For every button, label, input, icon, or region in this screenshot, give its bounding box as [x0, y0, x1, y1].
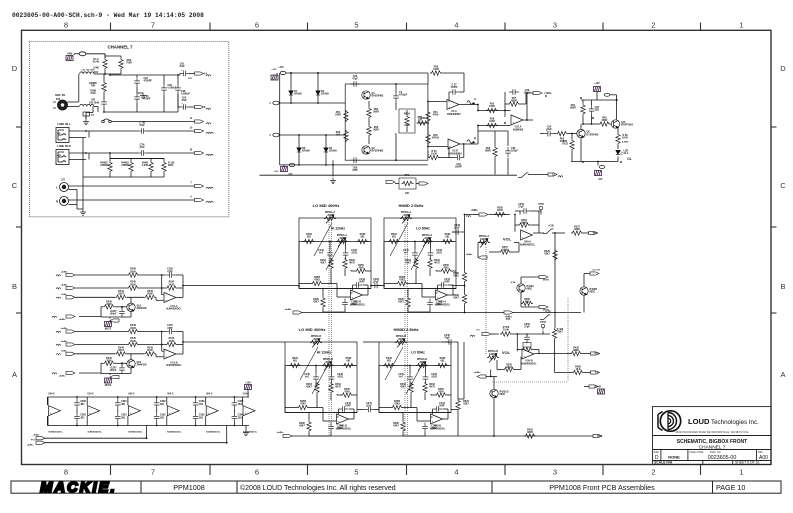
op-amp U5.A — [447, 100, 459, 110]
connector MUTE flag 2 — [539, 305, 548, 308]
connector gain cw — [386, 180, 395, 183]
wire — [205, 397, 207, 405]
capacitor C245 — [412, 249, 418, 259]
svg-text:.0022: .0022 — [337, 376, 344, 379]
wire — [520, 277, 522, 284]
svg-text:180 R: 180 R — [118, 349, 125, 352]
resistor R528 — [521, 347, 533, 351]
svg-text:JB1: JB1 — [160, 416, 165, 419]
wire — [443, 418, 449, 420]
svg-text:47uF: 47uF — [444, 337, 450, 340]
junction — [582, 123, 584, 125]
svg-text:MIC IN: MIC IN — [55, 93, 65, 97]
svg-text:4745: 4745 — [443, 267, 449, 270]
junction — [161, 274, 163, 276]
junction — [526, 119, 528, 121]
wire eq row — [379, 365, 451, 367]
resistor R545 — [127, 342, 139, 346]
wire XLR feed — [86, 53, 105, 55]
svg-text:+15V: +15V — [278, 67, 284, 69]
wire — [463, 342, 465, 399]
wire in2 — [76, 287, 128, 289]
op-amp U51-A — [164, 293, 176, 303]
junction — [182, 341, 184, 343]
wire — [442, 72, 464, 74]
resistor R541 — [166, 342, 178, 346]
transistor Q2 — [362, 146, 370, 154]
wire — [568, 133, 577, 135]
junction — [332, 164, 334, 166]
svg-text:0dBu: 0dBu — [61, 350, 67, 352]
svg-text:2008: 2008 — [403, 214, 409, 217]
wire — [478, 110, 511, 112]
wire — [332, 160, 334, 176]
junction — [76, 425, 78, 427]
diode D3 — [297, 148, 301, 152]
transistor Q1 — [362, 91, 370, 99]
wire — [493, 398, 495, 436]
connector line out M — [533, 91, 542, 94]
svg-text:TP53: TP53 — [540, 321, 546, 324]
wire — [436, 270, 440, 272]
wire meter bottom rail — [47, 425, 249, 427]
svg-text:OL2: OL2 — [624, 152, 629, 155]
wire eq row — [384, 241, 456, 243]
connector aux return PV5 — [283, 434, 292, 437]
junction — [493, 435, 495, 437]
potentiometer RP50A-A — [478, 240, 490, 244]
svg-text:4n7: 4n7 — [404, 252, 409, 255]
wire mic+ run — [279, 102, 345, 104]
wire squiggle — [56, 344, 61, 345]
wire — [115, 306, 127, 308]
wire — [583, 232, 589, 234]
power flag OP_M flag — [598, 389, 605, 394]
svg-text:-: - — [352, 290, 353, 294]
wire — [582, 116, 584, 125]
svg-text:681: 681 — [387, 360, 392, 363]
wire fb — [182, 332, 184, 355]
wire — [402, 413, 404, 421]
junction — [76, 396, 78, 398]
capacitor C66B — [101, 98, 107, 108]
junction — [117, 425, 119, 427]
junction — [161, 344, 163, 346]
capacitor C233 — [423, 373, 429, 383]
wire — [323, 283, 337, 285]
wire — [367, 285, 369, 295]
potentiometer RP59A-A pot — [400, 216, 412, 220]
wire — [584, 386, 589, 388]
wire — [354, 412, 357, 414]
wire — [583, 295, 585, 312]
svg-text:681: 681 — [293, 360, 298, 363]
svg-text:+4dBu: +4dBu — [33, 433, 40, 436]
op-amp U51-B — [337, 414, 349, 424]
junction — [195, 396, 197, 398]
wire — [452, 285, 465, 287]
wire insert return bus — [260, 174, 518, 176]
wire — [69, 152, 86, 154]
wire — [121, 363, 123, 365]
wire preamp bottom rail — [280, 164, 428, 166]
pot box RP50 — [523, 343, 531, 348]
svg-text:680R: 680R — [573, 349, 579, 352]
wire — [121, 372, 123, 374]
svg-text:10.0K: 10.0K — [431, 153, 438, 156]
wire — [315, 383, 317, 386]
svg-text:47uF: 47uF — [366, 405, 372, 408]
wire — [308, 433, 310, 437]
wire squiggle — [56, 275, 61, 276]
wire — [150, 173, 152, 177]
wire — [163, 75, 165, 84]
svg-text:681: 681 — [361, 236, 366, 239]
test point TP53 — [541, 324, 544, 330]
switch row2 post sw — [540, 315, 551, 320]
wire — [427, 73, 429, 84]
svg-text:47K5: 47K5 — [394, 403, 400, 406]
wire — [69, 137, 86, 139]
wire — [110, 158, 164, 160]
svg-text:47uF: 47uF — [179, 65, 185, 68]
wire — [162, 294, 164, 296]
resistor R523 — [388, 239, 400, 243]
wire — [497, 369, 503, 371]
wire squiggle — [56, 297, 61, 298]
capacitor C62 — [180, 104, 190, 110]
wire — [414, 242, 416, 250]
svg-text:4n7: 4n7 — [399, 376, 404, 379]
resistor R545 — [127, 286, 139, 290]
wire mute row — [101, 316, 131, 318]
resistor R455 — [435, 393, 447, 397]
resistor R57 — [508, 102, 520, 106]
svg-text:2008: 2008 — [327, 214, 333, 217]
potentiometer RP58A-A pot2 — [336, 239, 348, 243]
junction — [290, 72, 292, 74]
wire — [357, 409, 365, 411]
wire — [45, 442, 227, 444]
svg-text:U54-C: U54-C — [87, 393, 94, 396]
svg-text:JB18: JB18 — [351, 303, 357, 306]
wire — [247, 390, 249, 397]
resistor R453 — [409, 382, 413, 394]
wire — [407, 289, 409, 297]
svg-text:47PF: 47PF — [352, 169, 358, 172]
capacitor meter cap C382 — [154, 399, 160, 409]
svg-text:SHEET 9 OF 16: SHEET 9 OF 16 — [735, 461, 760, 465]
junction — [477, 104, 479, 106]
connector meter in MMT — [36, 437, 45, 440]
LINE IN L jack J2L — [56, 128, 69, 143]
resistor R426b — [552, 328, 556, 340]
svg-text:47K5: 47K5 — [399, 279, 405, 282]
wire sum1 to eq1 — [183, 285, 299, 287]
svg-text:43K7: 43K7 — [313, 301, 319, 304]
resistor R545b — [103, 361, 115, 365]
wire — [427, 151, 429, 158]
svg-text:43K7: 43K7 — [320, 262, 326, 265]
junction — [425, 365, 427, 367]
wire — [147, 130, 195, 132]
svg-text:-: - — [89, 406, 90, 410]
wire — [416, 183, 419, 185]
wire — [331, 366, 333, 374]
wire mute bus — [554, 233, 556, 313]
capacitor C233 — [329, 373, 335, 383]
svg-text:100R: 100R — [489, 120, 495, 123]
svg-text:63.4K: 63.4K — [93, 61, 100, 64]
wire summing node — [161, 275, 163, 295]
wire — [47, 397, 49, 405]
wire — [156, 409, 158, 413]
connector aux mid connector — [504, 311, 513, 314]
wire — [554, 340, 556, 354]
resistor R452 — [524, 434, 536, 438]
potentiometer RP59A-B pot — [395, 340, 407, 344]
junction — [177, 74, 179, 76]
svg-text:P20: P20 — [56, 98, 61, 101]
wire — [69, 130, 86, 132]
wire — [477, 243, 479, 258]
wire — [86, 397, 88, 405]
connector input 1 — [66, 330, 75, 333]
capacitor C265 — [166, 272, 176, 278]
svg-text:2K04: 2K04 — [506, 366, 512, 369]
svg-text:2008: 2008 — [313, 338, 319, 341]
wire — [166, 397, 168, 405]
wire squiggle — [206, 201, 213, 202]
junction — [161, 331, 163, 333]
wire summing node — [161, 332, 163, 352]
svg-text:2K00: 2K00 — [130, 270, 136, 273]
wire line L — [86, 130, 138, 132]
connector tp out TP1 — [591, 371, 600, 374]
power flag -15V mic — [281, 167, 288, 172]
svg-text:JB1: JB1 — [121, 403, 126, 406]
wire — [597, 162, 599, 166]
svg-text:-: - — [130, 406, 131, 410]
wire — [610, 123, 613, 125]
svg-text:680C: 680C — [500, 393, 506, 396]
svg-text:+: + — [244, 411, 246, 415]
resistor R536 — [343, 363, 355, 367]
wiper line 2 — [406, 361, 424, 394]
svg-text:43K7: 43K7 — [398, 301, 404, 304]
resistor R55 — [486, 108, 498, 112]
svg-text:LO 80Hz: LO 80Hz — [416, 227, 430, 231]
svg-text:LO MID 400Hz: LO MID 400Hz — [299, 327, 326, 332]
connector mute in PV — [66, 371, 75, 374]
svg-text:.0022: .0022 — [351, 252, 358, 255]
svg-text:2008: 2008 — [325, 361, 331, 364]
svg-text:+4dBu: +4dBu — [277, 431, 284, 434]
svg-text:PPM1008: PPM1008 — [173, 483, 205, 492]
CHANNEL 7 dashed enclosure — [29, 42, 228, 217]
capacitor C74 — [138, 150, 148, 156]
wire — [76, 397, 78, 399]
svg-text:PP1: PP1 — [593, 232, 598, 235]
junction — [490, 376, 492, 378]
input pin oval 3 — [273, 133, 279, 137]
svg-text:PV4: PV4 — [506, 318, 511, 321]
svg-text:+: + — [181, 68, 183, 72]
wire — [464, 283, 466, 293]
capacitor C64 — [134, 77, 140, 87]
resistor R66 — [367, 125, 371, 137]
wire — [69, 159, 86, 161]
resistor R544 — [115, 352, 127, 356]
svg-text:5: 5 — [354, 468, 358, 477]
signal tap B — [467, 140, 473, 144]
svg-text:BVB76483: BVB76483 — [372, 150, 384, 153]
junction — [226, 442, 228, 444]
junction — [121, 306, 123, 308]
op-amp U53-A — [436, 290, 448, 300]
svg-text:JB1: JB1 — [80, 403, 85, 406]
svg-text:-: - — [338, 414, 339, 418]
wire — [76, 205, 78, 210]
resistor R543 — [144, 295, 156, 299]
wire in3 — [76, 353, 116, 355]
wire — [542, 331, 544, 334]
junction — [370, 285, 372, 287]
svg-text:L: L — [56, 186, 58, 190]
wire — [337, 296, 351, 298]
resistor R536 — [437, 363, 449, 367]
wire — [100, 372, 102, 375]
resistor R554 — [518, 223, 530, 227]
wire aux bus row — [299, 312, 581, 314]
wire squiggle — [52, 373, 57, 374]
svg-text:47K05: 47K05 — [432, 137, 440, 140]
wire — [73, 54, 75, 55]
svg-text:+: + — [432, 419, 434, 423]
wire — [309, 435, 331, 437]
wire — [448, 92, 450, 102]
wire — [464, 215, 466, 233]
svg-text:-: - — [244, 406, 245, 410]
wire eq row — [299, 241, 371, 243]
wire — [491, 333, 499, 335]
op-amp meter amp 2 U54 — [88, 406, 100, 416]
svg-text:-: - — [523, 349, 524, 353]
svg-text:A: A — [474, 97, 476, 101]
connector P1 pin 14 — [195, 72, 204, 75]
wire — [178, 344, 184, 346]
junction — [516, 333, 518, 335]
capacitor meter cap C380 — [74, 399, 80, 409]
wire squiggle — [206, 108, 211, 109]
junction — [298, 134, 300, 136]
wire ol bottom rail — [571, 161, 618, 163]
wire squiggle — [52, 316, 57, 317]
capacitor C233 — [428, 249, 434, 259]
svg-text:180PF: 180PF — [455, 166, 463, 169]
capacitor C267 — [119, 308, 125, 318]
wire mic hot — [68, 101, 79, 103]
resistor R556 — [500, 332, 512, 336]
wire — [582, 100, 584, 104]
wire — [554, 313, 556, 329]
op-amp meter amp 5 U54 — [206, 406, 218, 416]
svg-text:47K6: 47K6 — [433, 114, 439, 117]
wire — [533, 232, 544, 234]
connector vol2 return PV4 — [477, 375, 486, 378]
capacitor meter cap C394 — [232, 413, 238, 423]
diode LED1 — [616, 150, 620, 154]
wire — [46, 397, 48, 405]
svg-text:+: + — [165, 354, 167, 358]
capacitor C553 — [520, 208, 530, 214]
wire filter mid — [104, 111, 178, 113]
svg-text:+: + — [89, 411, 91, 415]
resistor R453 — [315, 382, 319, 394]
wire — [516, 334, 518, 351]
wire — [309, 407, 323, 409]
svg-text:3: 3 — [553, 21, 557, 30]
wire — [617, 145, 619, 149]
wire — [82, 177, 84, 209]
svg-text:LINE IN L: LINE IN L — [57, 122, 71, 126]
wire — [540, 211, 542, 215]
svg-text:+4dBu: +4dBu — [61, 327, 68, 330]
wire — [97, 107, 99, 113]
svg-text:U54-C: U54-C — [243, 393, 250, 396]
wire — [368, 101, 370, 107]
potentiometer RP58A-B pot — [310, 340, 322, 344]
resistor R523 — [289, 363, 301, 367]
svg-text:MUTE: MUTE — [105, 329, 112, 331]
svg-text:4: 4 — [454, 468, 458, 477]
wiper line RP58A-A — [314, 223, 332, 256]
svg-text:CH_ON: CH_ON — [592, 270, 600, 272]
wire — [104, 54, 106, 58]
wire — [617, 157, 619, 162]
svg-text:22K1: 22K1 — [404, 125, 410, 127]
svg-text:43K7: 43K7 — [544, 253, 550, 256]
connector gain ccw — [419, 182, 428, 185]
resistor R604 — [149, 161, 153, 173]
svg-text:150pF: 150pF — [511, 150, 518, 153]
wire — [521, 306, 539, 308]
resistor R60 — [556, 131, 568, 135]
signal tap A — [467, 101, 473, 105]
resistor R136 — [103, 58, 107, 70]
wire — [226, 426, 228, 443]
wire — [496, 360, 498, 370]
wire — [453, 288, 456, 290]
wire — [406, 127, 408, 132]
wire — [69, 204, 78, 206]
junction — [156, 396, 158, 398]
svg-text:M: M — [190, 149, 192, 152]
resistor R548 — [127, 329, 139, 333]
resistor R545b — [103, 305, 115, 309]
svg-text:70R: 70R — [91, 85, 96, 88]
wire — [195, 397, 197, 399]
junction — [463, 143, 465, 145]
wire — [76, 423, 78, 426]
wire — [528, 174, 548, 176]
capacitor C245 — [445, 339, 455, 345]
resistor R605 — [162, 161, 166, 173]
svg-text:2K00: 2K00 — [169, 340, 175, 343]
wire — [242, 416, 244, 426]
wire — [127, 397, 129, 405]
junction — [195, 425, 197, 427]
